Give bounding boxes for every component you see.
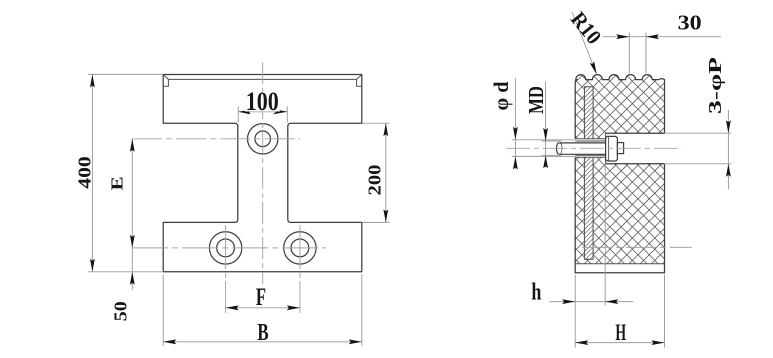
dim 50 line	[131, 248, 133, 290]
dim F line	[226, 307, 300, 309]
svg-text:φ d: φ d	[489, 81, 513, 110]
svg-text:F: F	[256, 284, 266, 311]
dim 100 extension lines	[237, 107, 239, 123]
top mounting hole inner	[255, 131, 271, 147]
rubber block outline	[575, 157, 664, 273]
dim phi-d line	[514, 78, 516, 170]
threaded stud shaft	[559, 143, 606, 154]
svg-text:3-φP: 3-φP	[705, 57, 725, 114]
dim h line	[550, 301, 634, 303]
svg-text:100: 100	[246, 87, 279, 116]
dim h arrows	[562, 299, 575, 304]
dim MD ext lines	[542, 140, 562, 142]
dim 400 ext top	[88, 73, 163, 75]
dim 100 line	[238, 111, 287, 113]
svg-text:400: 400	[74, 156, 94, 189]
bolt tip	[617, 143, 623, 154]
dim 3-phiP line	[727, 110, 729, 189]
dim E arrows	[130, 139, 135, 152]
R10 leader arrow	[590, 61, 599, 75]
embedded plate slot knockout	[584, 87, 593, 260]
dim 400 arrows	[90, 74, 95, 87]
vertical centerline	[262, 62, 264, 284]
bottom-left hole outer	[209, 232, 241, 264]
dim h ext lines	[574, 275, 576, 306]
dim 50 arrow	[130, 272, 135, 285]
svg-text:H: H	[615, 320, 626, 346]
dim E line	[131, 139, 133, 248]
dim F arrows	[226, 305, 239, 310]
bolt hole band knockout	[606, 133, 665, 164]
top-right corner chamfer+notch	[357, 75, 362, 87]
bottom plate strip (unhatched)	[575, 264, 664, 273]
svg-text:200: 200	[364, 165, 384, 196]
dim 200 arrows	[383, 123, 388, 136]
dim H ext lines	[574, 306, 576, 348]
sleeve outer lines	[575, 138, 605, 140]
svg-text:50: 50	[110, 301, 130, 321]
stud rounded end	[557, 143, 559, 154]
dim 200 line	[385, 123, 387, 222]
hex nut	[606, 136, 618, 161]
bottom-right hole vertical centerline	[299, 225, 301, 313]
dim MD arrows	[543, 128, 548, 141]
counterbore face	[605, 133, 607, 164]
rubber cross-hatch	[335, 60, 773, 300]
dim phi-d ext lines	[512, 139, 575, 141]
sleeve inner lines	[575, 140, 605, 142]
top plate inner edge line	[168, 78, 356, 80]
bottom holes centerline through side view	[582, 246, 692, 248]
dim phi-d arrows	[513, 127, 518, 140]
bolt access hole phiP outline	[606, 132, 665, 134]
bracket body outline (front view)	[163, 75, 362, 272]
dim 3-phiP arrows	[726, 120, 731, 133]
dim text 100	[245, 92, 280, 112]
svg-text:30: 30	[678, 11, 702, 35]
dim 30 arrows	[616, 34, 629, 39]
top hole horizontal centerline	[132, 138, 300, 140]
bottom holes horizontal centerline	[132, 247, 326, 249]
dim 400 line	[91, 74, 93, 271]
bottom-left hole inner	[217, 239, 235, 257]
svg-text:E: E	[108, 176, 127, 190]
dim 30 line	[603, 36, 722, 38]
embedded plate outline	[584, 87, 593, 139]
nut left face line	[608, 137, 610, 161]
dim 400 ext bottom	[88, 271, 163, 273]
dim B line	[163, 341, 362, 343]
svg-text:h: h	[531, 279, 541, 305]
bottom-left hole vertical centerline	[225, 225, 227, 313]
bottom-right hole inner	[291, 239, 309, 257]
dim MD line	[545, 82, 547, 167]
dim 100 arrows	[237, 109, 253, 114]
svg-text:MD: MD	[524, 86, 548, 114]
bolt centerline	[506, 147, 682, 149]
dim 30 ext lines	[628, 33, 630, 74]
dim 200 ext lines	[362, 122, 390, 124]
R10 leader line	[572, 12, 597, 74]
top mounting hole outer	[248, 124, 278, 154]
svg-text:B: B	[257, 320, 268, 346]
top-left corner chamfer+notch	[163, 75, 168, 87]
dim H line	[575, 342, 664, 344]
dim B arrows	[163, 339, 176, 344]
bottom-right hole outer	[284, 232, 316, 264]
dim 3-phiP ext lines	[665, 132, 732, 134]
dim B ext lines	[162, 275, 164, 347]
bottom plate strip line	[575, 263, 664, 265]
dim H arrows	[575, 340, 588, 345]
